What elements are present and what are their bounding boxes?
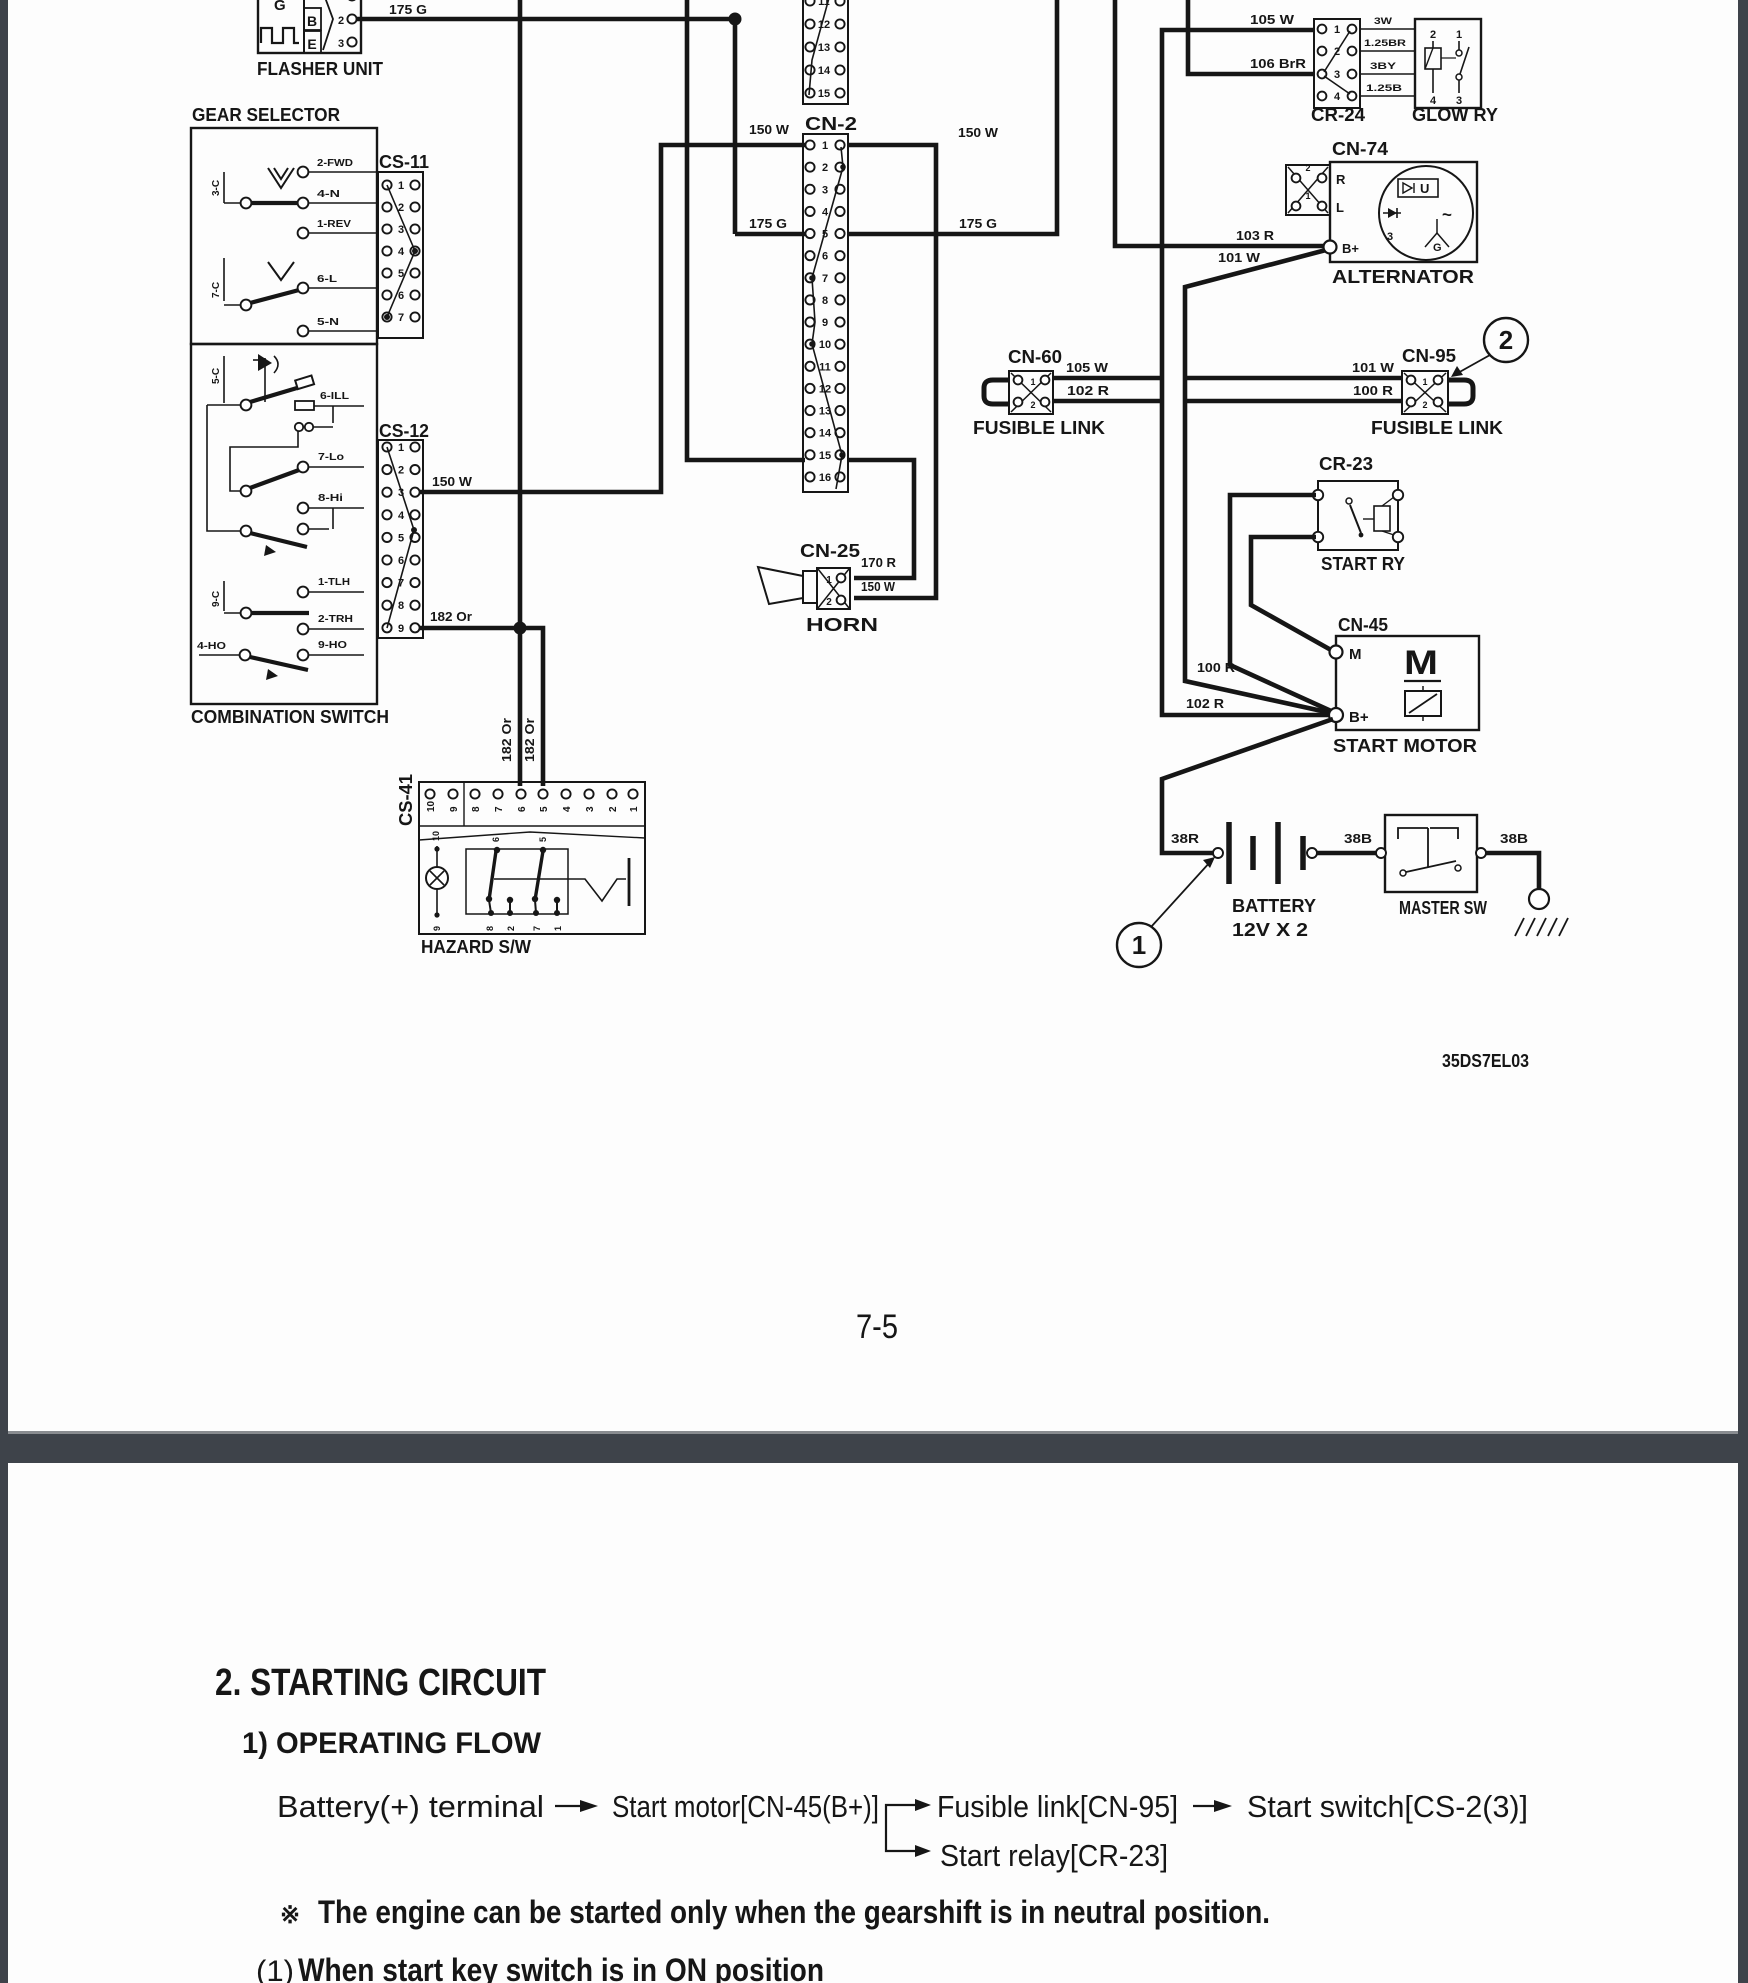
svg-text:35DS7EL03: 35DS7EL03 (1442, 1051, 1529, 1071)
svg-text:CS-12: CS-12 (379, 421, 429, 441)
svg-text:ALTERNATOR: ALTERNATOR (1332, 267, 1474, 287)
comb switch terminal 2-TRH (298, 624, 309, 635)
svg-text:2-TRH: 2-TRH (318, 614, 353, 625)
svg-text:1: 1 (398, 442, 404, 454)
svg-text:BATTERY: BATTERY (1232, 896, 1316, 916)
comb switch arm 3 (250, 533, 307, 547)
svg-text:4: 4 (1334, 91, 1341, 103)
svg-text:182 Or: 182 Or (522, 718, 537, 762)
CR-23 coil (1374, 506, 1390, 531)
connector CN-2 (803, 134, 848, 492)
svg-text:HORN: HORN (806, 615, 878, 635)
svg-text:2. STARTING CIRCUIT: 2. STARTING CIRCUIT (215, 1662, 546, 1704)
svg-text:2: 2 (1305, 163, 1310, 173)
svg-text:8: 8 (398, 600, 404, 612)
svg-text:5: 5 (538, 837, 548, 842)
comb switch arm 4 closed (251, 611, 309, 615)
svg-text:175 G: 175 G (749, 216, 787, 231)
svg-text:6: 6 (517, 806, 528, 812)
wire vertical trunk x520 from page top to hazard switch (518, 0, 523, 786)
svg-text:12V X 2: 12V X 2 (1232, 920, 1308, 940)
svg-text:3BY: 3BY (1370, 61, 1397, 72)
svg-text:10: 10 (819, 339, 831, 351)
svg-text:1: 1 (1422, 377, 1427, 387)
comb switch arm 1 to illumination (250, 388, 297, 402)
svg-text:182 Or: 182 Or (499, 718, 514, 762)
wire 101W diagonal from alternator B+ down trunk (1185, 250, 1331, 713)
comb switch pivot 1 (241, 400, 252, 411)
gear selector terminal 2-FWD (298, 167, 309, 178)
wire 150W from CN-2 pin1 right to horn (848, 145, 936, 598)
svg-text:105 W: 105 W (1250, 12, 1295, 27)
svg-text:1-TLH: 1-TLH (318, 577, 350, 588)
flasher unit chevron (323, 0, 333, 50)
svg-text:GLOW RY: GLOW RY (1412, 105, 1498, 125)
svg-text:COMBINATION SWITCH: COMBINATION SWITCH (191, 707, 389, 727)
flasher unit box (258, 0, 361, 53)
svg-text:9: 9 (398, 623, 404, 635)
comb switch resistor 6-ILL (295, 401, 314, 410)
hazard switch arm B (535, 851, 543, 900)
comb switch lamp pair symbol (332, 406, 334, 423)
master switch box (1385, 815, 1477, 892)
svg-text:CN-60: CN-60 (1008, 347, 1062, 367)
svg-text:4: 4 (562, 806, 573, 812)
svg-text:2: 2 (1030, 400, 1035, 410)
glow relay switch (1458, 41, 1460, 50)
battery terminal right (1307, 848, 1317, 858)
svg-text:182 Or: 182 Or (430, 609, 472, 624)
svg-text:Start switch[CS-2(3)]: Start switch[CS-2(3)] (1247, 1789, 1528, 1824)
svg-text:G: G (274, 0, 286, 14)
svg-text:MASTER SW: MASTER SW (1399, 898, 1487, 918)
svg-text:2: 2 (1430, 29, 1436, 41)
svg-text:2-FWD: 2-FWD (317, 158, 353, 169)
svg-text:CN-25: CN-25 (800, 541, 860, 561)
comb switch link wire down-left (230, 431, 298, 491)
svg-text:38B: 38B (1344, 831, 1372, 846)
svg-text:102 R: 102 R (1186, 696, 1225, 711)
glow relay box (1415, 19, 1481, 108)
svg-text:E: E (307, 36, 316, 52)
svg-text:1) OPERATING FLOW: 1) OPERATING FLOW (242, 1727, 542, 1760)
svg-text:2: 2 (398, 465, 404, 477)
svg-text:10: 10 (426, 800, 437, 812)
svg-text:6-L: 6-L (317, 274, 337, 285)
start motor solenoid symbol (1405, 691, 1441, 716)
svg-text:Start relay[CR-23]: Start relay[CR-23] (940, 1838, 1168, 1873)
battery plates (1226, 822, 1232, 884)
svg-text:1: 1 (1132, 930, 1146, 960)
svg-text:B+: B+ (1349, 709, 1369, 726)
svg-text:38B: 38B (1500, 831, 1528, 846)
svg-text:1: 1 (1030, 377, 1035, 387)
alternator circle (1379, 166, 1473, 260)
comb switch antenna symbol (264, 358, 266, 402)
svg-text:5-N: 5-N (317, 317, 339, 328)
svg-text:100 R: 100 R (1353, 383, 1394, 398)
hazard switch lamp (436, 846, 438, 867)
svg-text:16: 16 (819, 472, 831, 484)
svg-text:(1): (1) (256, 1955, 294, 1983)
svg-text:7-Lo: 7-Lo (318, 452, 344, 463)
svg-text:START RY: START RY (1321, 554, 1405, 574)
comb switch terminal 1-TLH (298, 587, 309, 598)
connector CN-25 (817, 568, 850, 609)
CN-60 left loop stub (984, 380, 1009, 404)
svg-text:1: 1 (553, 926, 563, 931)
connector CN-60 (1009, 371, 1053, 414)
svg-text:M: M (1349, 646, 1362, 663)
svg-text:13: 13 (818, 42, 830, 54)
svg-text:175 G: 175 G (959, 216, 997, 231)
wire from CR-23 pin to start motor M (1251, 537, 1331, 650)
svg-text:CS-11: CS-11 (379, 152, 429, 172)
svg-text:102 R: 102 R (1067, 383, 1110, 398)
horn speaker symbol (758, 567, 803, 604)
svg-text:GEAR SELECTOR: GEAR SELECTOR (192, 105, 340, 125)
callout circle 1 (1117, 923, 1161, 967)
flasher unit square-wave symbol (261, 28, 299, 43)
svg-text:2: 2 (608, 806, 619, 812)
svg-text:1: 1 (1334, 24, 1340, 36)
svg-text:150 W: 150 W (432, 474, 473, 489)
svg-text:3W: 3W (1374, 16, 1392, 27)
svg-text:106 BrR: 106 BrR (1250, 56, 1307, 71)
svg-text:9-C: 9-C (211, 591, 222, 607)
wire from CR-23 pin to start motor B+ (1230, 495, 1331, 711)
svg-text:~: ~ (1442, 205, 1452, 224)
comb switch pivot 2 (241, 486, 252, 497)
svg-text:9: 9 (432, 926, 442, 931)
glow relay coil (1432, 41, 1434, 48)
svg-text:2: 2 (822, 162, 828, 174)
svg-text:CR-23: CR-23 (1319, 454, 1373, 474)
svg-text:8: 8 (822, 295, 828, 307)
svg-text:1: 1 (629, 806, 640, 812)
svg-text:8-Hi: 8-Hi (318, 493, 343, 504)
ground symbol (1529, 889, 1549, 909)
comb switch aux contact below 8-Hi (332, 508, 334, 529)
svg-text:103 R: 103 R (1236, 228, 1275, 243)
svg-text:6-ILL: 6-ILL (320, 391, 349, 402)
svg-text:6: 6 (398, 290, 404, 302)
svg-text:5: 5 (539, 806, 550, 812)
gear selector contact arm to 4-N (247, 201, 301, 205)
svg-text:4: 4 (398, 510, 405, 522)
svg-text:Battery(+) terminal: Battery(+) terminal (277, 1789, 544, 1824)
wire 101W to CN-95 pin1 (1185, 376, 1402, 381)
svg-text:2: 2 (826, 597, 832, 608)
svg-text:1.25B: 1.25B (1366, 83, 1402, 94)
svg-text:1: 1 (826, 575, 832, 586)
svg-text:8: 8 (485, 926, 495, 931)
CS-11 internal link line (387, 185, 415, 317)
flow arrow 2 (1193, 1805, 1218, 1807)
svg-text:175 G: 175 G (389, 2, 427, 17)
svg-text:150 W: 150 W (861, 579, 896, 594)
junction dot 182Or node (514, 622, 527, 635)
wire 105W from CR-24 pin1 down trunk to start motor B+ (1162, 30, 1330, 715)
svg-text:14: 14 (819, 428, 832, 440)
svg-text:5-C: 5-C (211, 368, 222, 384)
CR-24 to glow relay wires (1360, 28, 1415, 30)
wire 175G into CN-2 pin 5 (left) (735, 232, 805, 237)
svg-text:3: 3 (822, 184, 828, 196)
start motor B+ terminal (1329, 708, 1343, 722)
svg-text:Fusible link[CN-95]: Fusible link[CN-95] (937, 1789, 1178, 1824)
relay CR-23 box (1318, 481, 1398, 550)
svg-text:170 R: 170 R (861, 555, 897, 570)
comb switch terminal 9-HO (298, 650, 309, 661)
gear selector chevron symbol 2 (268, 262, 294, 280)
svg-text:1-REV: 1-REV (317, 219, 351, 230)
master switch terminal right (1476, 848, 1486, 858)
wire 175G from flasher pin2 (357, 17, 735, 22)
svg-text:U: U (1420, 181, 1429, 196)
svg-text:2: 2 (1422, 400, 1427, 410)
hazard switch contact box (466, 849, 568, 914)
svg-text:CN-45: CN-45 (1338, 615, 1388, 635)
start motor box (1336, 636, 1479, 730)
svg-text:10: 10 (431, 831, 441, 841)
wire vertical x687 from page top to CN-2 pin15 (687, 0, 805, 460)
start motor M terminal (1330, 646, 1343, 659)
svg-text:7: 7 (532, 926, 542, 931)
gear selector terminal 6-L (298, 283, 309, 294)
svg-text:9: 9 (822, 317, 828, 329)
wire 106BrR from top to CR-24 pin3 (1188, 0, 1314, 74)
connector above CN-2 (pins 11-15) (803, 0, 848, 104)
connector CR-24 (1314, 19, 1360, 108)
svg-text:M: M (1404, 644, 1438, 682)
flow bracket (886, 1805, 920, 1851)
gear selector terminal 4-N (298, 198, 309, 209)
hazard switch outer box (419, 782, 645, 934)
CS-12 internal link line (387, 447, 414, 628)
svg-text:101 W: 101 W (1352, 360, 1395, 375)
svg-text:G: G (1433, 242, 1442, 254)
svg-text:11: 11 (819, 361, 831, 373)
svg-text:105 W: 105 W (1066, 360, 1109, 375)
CN-95 right loop stub (1448, 380, 1473, 404)
svg-text:※: ※ (280, 1902, 300, 1929)
wire vertical from 175G junction down to CN-2 pin5 (733, 19, 738, 234)
wire 105W from CN-60 pin1 (1053, 376, 1162, 381)
callout 1 arrow (1151, 861, 1211, 927)
svg-text:8: 8 (471, 806, 482, 812)
wire 150W from CS-12 pin3 up to CN-2 pin1 (420, 145, 805, 492)
callout circle 2 (1484, 318, 1528, 362)
wire 38B battery to master switch (1317, 851, 1377, 856)
comb switch terminal 8-Hi (298, 503, 309, 514)
svg-text:9-HO: 9-HO (318, 640, 347, 651)
svg-text:3: 3 (585, 806, 596, 812)
CR-23 switch contact (1346, 498, 1352, 504)
svg-text:HAZARD S/W: HAZARD S/W (421, 937, 531, 957)
gear selector terminal 1-REV (298, 228, 309, 239)
alternator box (1330, 162, 1477, 262)
svg-text:6: 6 (822, 251, 828, 263)
svg-text:14: 14 (818, 65, 831, 77)
gear selector box (191, 128, 377, 344)
svg-text:3-C: 3-C (211, 180, 222, 196)
master switch internals (1398, 828, 1428, 839)
wire 38B master switch to ground (1486, 853, 1539, 889)
comb switch arm 2 to 7-Lo (250, 470, 299, 488)
hazard switch lower contacts (507, 897, 513, 903)
svg-text:FUSIBLE LINK: FUSIBLE LINK (1371, 418, 1503, 438)
svg-text:When start key switch is in ON: When start key switch is in ON position (298, 1952, 824, 1983)
connector CN-95 (1402, 371, 1448, 414)
comb switch arm 5 (250, 657, 308, 670)
svg-text:2: 2 (506, 926, 516, 931)
svg-text:The engine can be started only: The engine can be started only when the … (318, 1894, 1270, 1930)
junction dot on 175G wire (729, 13, 742, 26)
flasher unit B terminal box (304, 8, 321, 30)
svg-text:B+: B+ (1342, 241, 1359, 256)
wire 182Or from CS-12 pin9 to hazard switch (420, 628, 543, 786)
comb switch wire to dimmer pivot (207, 404, 241, 406)
alternator regulator symbol (1398, 179, 1438, 197)
svg-text:CN-95: CN-95 (1402, 346, 1456, 366)
comb switch terminal 7-Lo (298, 462, 309, 473)
svg-text:101 W: 101 W (1218, 250, 1261, 265)
wire 38R from start motor B+ to battery (1162, 719, 1333, 853)
svg-text:CN-74: CN-74 (1332, 139, 1388, 159)
svg-text:6: 6 (491, 837, 501, 842)
master switch terminal left (1376, 848, 1386, 858)
svg-text:R: R (1336, 172, 1346, 187)
svg-text:1: 1 (398, 180, 404, 192)
svg-text:CN-2: CN-2 (805, 114, 857, 134)
wire 103R vertical and to alternator B+ (1115, 0, 1324, 246)
svg-text:4: 4 (822, 206, 829, 218)
svg-text:FLASHER UNIT: FLASHER UNIT (257, 59, 383, 79)
gear selector press chevron symbol (268, 168, 294, 188)
svg-text:2: 2 (1499, 325, 1513, 355)
svg-text:9: 9 (449, 806, 460, 812)
wire 175G from CN-2 pin5 right (848, 0, 1057, 234)
svg-text:CS-41: CS-41 (396, 774, 416, 826)
svg-text:150 W: 150 W (958, 125, 999, 140)
svg-text:3: 3 (398, 224, 404, 236)
combination switch box (191, 344, 377, 704)
svg-text:B: B (307, 13, 317, 29)
flasher unit E terminal box (304, 31, 321, 53)
upper connector link line (809, 0, 829, 95)
svg-text:2: 2 (338, 15, 344, 27)
wire 170R from CN-2 pin15 right to horn (848, 460, 914, 578)
svg-text:1: 1 (1456, 29, 1462, 41)
svg-text:6: 6 (398, 555, 404, 567)
gear selector terminal 5-N (298, 326, 309, 337)
CN-2 internal link line (812, 147, 843, 489)
callout 2 arrow (1456, 355, 1490, 374)
svg-text:15: 15 (819, 450, 831, 462)
flasher unit pin 1 (347, 0, 356, 1)
flow arrow 1 (555, 1805, 584, 1807)
svg-text:3: 3 (1334, 69, 1340, 81)
svg-text:7-5: 7-5 (856, 1308, 898, 1346)
alternator B+ terminal (1324, 241, 1337, 254)
comb switch pivot 4 (241, 608, 252, 619)
svg-text:4: 4 (398, 246, 405, 258)
connector CN-74 (1286, 165, 1330, 215)
svg-text:7: 7 (494, 806, 505, 812)
alternator Y winding symbol (1436, 219, 1438, 233)
svg-text:1: 1 (1305, 191, 1310, 201)
comb switch pivot 3 (241, 526, 252, 537)
svg-text:Start motor[CN-45(B+)]: Start motor[CN-45(B+)] (612, 1789, 879, 1824)
battery terminal left (1213, 848, 1223, 858)
hazard switch arm A (489, 851, 496, 900)
svg-text:15: 15 (818, 88, 830, 100)
svg-text:3: 3 (1387, 231, 1393, 243)
CR-24 internal links (1324, 31, 1350, 72)
svg-text:START MOTOR: START MOTOR (1333, 736, 1477, 756)
gear selector contact arm to 6-L (241, 300, 252, 311)
svg-text:3: 3 (338, 38, 344, 50)
svg-text:7: 7 (398, 312, 404, 324)
wire 102R from CN-60 pin2 (1053, 399, 1162, 404)
svg-text:150 W: 150 W (749, 122, 790, 137)
svg-text:4-HO: 4-HO (197, 641, 226, 652)
svg-text:4-N: 4-N (317, 189, 340, 200)
wire 100R to CN-95 pin2 (1185, 399, 1402, 404)
svg-text:38R: 38R (1171, 831, 1200, 846)
svg-text:7: 7 (822, 273, 828, 285)
svg-text:5: 5 (398, 532, 404, 544)
svg-text:1.25BR: 1.25BR (1364, 38, 1406, 49)
alternator diode symbol (1383, 212, 1401, 214)
svg-text:7-C: 7-C (211, 282, 222, 298)
svg-text:FUSIBLE LINK: FUSIBLE LINK (973, 418, 1105, 438)
CS-41 pin row (419, 825, 645, 827)
svg-text:L: L (1336, 200, 1344, 215)
hazard switch resistor zigzag (494, 879, 626, 901)
comb switch left bus wire (207, 405, 240, 531)
svg-text:1: 1 (822, 140, 828, 152)
